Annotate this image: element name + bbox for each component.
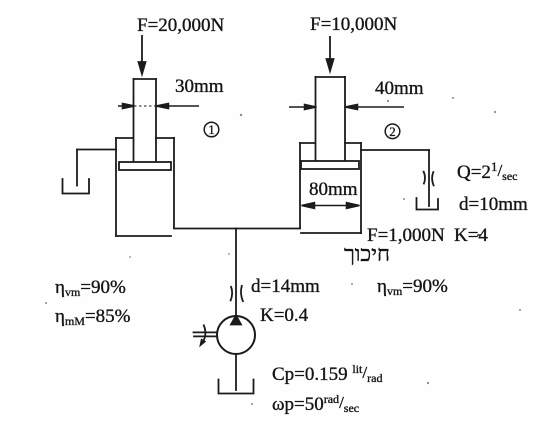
svg-text:80mm: 80mm bbox=[309, 179, 358, 200]
svg-text:ηvm=90%: ηvm=90% bbox=[377, 276, 448, 298]
svg-text:חיכוך: חיכוך bbox=[344, 241, 390, 266]
svg-text:2: 2 bbox=[389, 125, 395, 139]
svg-text:F=20,000N: F=20,000N bbox=[137, 15, 225, 36]
svg-text:d=10mm: d=10mm bbox=[459, 194, 528, 215]
svg-text:40mm: 40mm bbox=[375, 78, 424, 99]
svg-text:K=0.4: K=0.4 bbox=[260, 305, 309, 326]
svg-text:ηvm=90%: ηvm=90% bbox=[55, 277, 126, 299]
svg-text:1: 1 bbox=[208, 123, 214, 137]
svg-text:F=10,000N: F=10,000N bbox=[310, 14, 398, 35]
svg-text:ηmM=85%: ηmM=85% bbox=[55, 306, 131, 328]
svg-text:ωp=50rad/sec: ωp=50rad/sec bbox=[272, 392, 359, 415]
svg-text:30mm: 30mm bbox=[175, 76, 224, 97]
svg-text:d=14mm: d=14mm bbox=[251, 276, 320, 297]
svg-text:Q=21/sec: Q=21/sec bbox=[457, 159, 518, 183]
svg-text:Cp=0.159 lit/rad: Cp=0.159 lit/rad bbox=[272, 362, 382, 385]
svg-text:K=4: K=4 bbox=[454, 225, 488, 246]
